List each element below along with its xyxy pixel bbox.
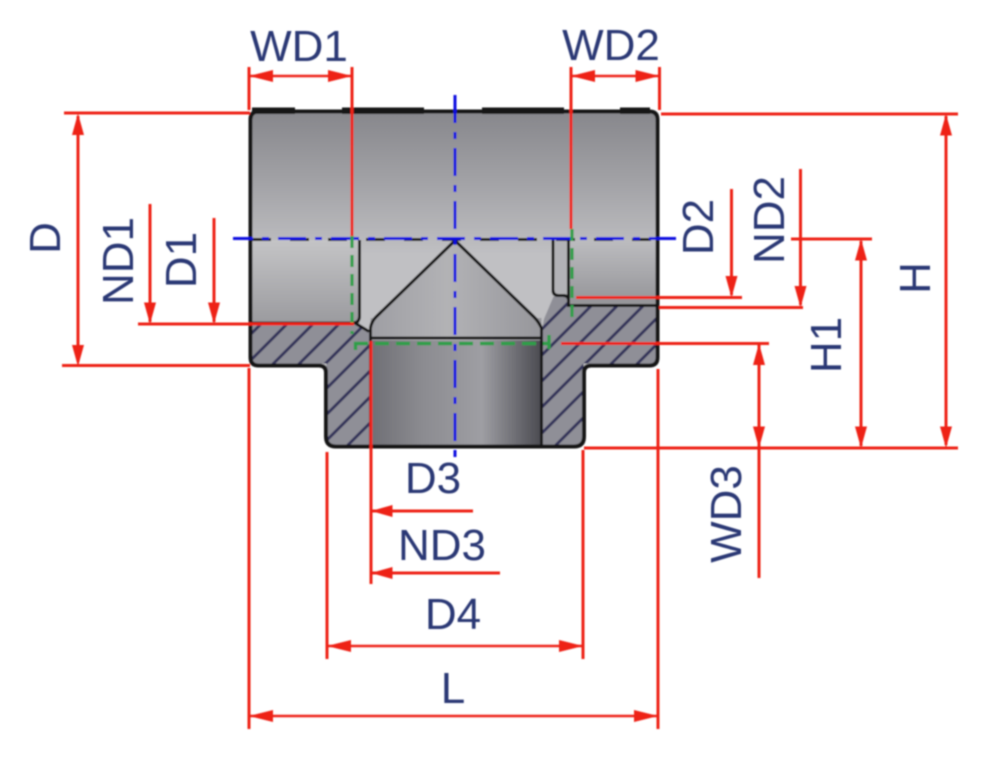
D3 dimension line <box>371 510 473 513</box>
WD2 right extension <box>658 67 661 110</box>
left socket step to cone <box>355 323 369 332</box>
WD2 left extension <box>570 67 573 229</box>
H dimension line <box>945 116 948 445</box>
vertical centerline (blue) <box>454 95 457 458</box>
svg-text:H: H <box>891 262 940 294</box>
ND2 extension <box>659 306 803 309</box>
svg-text:D: D <box>21 222 70 254</box>
top edge thick band segments <box>252 108 650 115</box>
WD2 arrows <box>571 70 595 82</box>
svg-text:H1: H1 <box>802 317 851 373</box>
hidden bore line (black dashed) on centerline <box>252 238 656 241</box>
right hatch section region <box>543 297 657 445</box>
WD3 arrows <box>753 344 765 366</box>
D top extension <box>64 112 250 115</box>
svg-text:WD2: WD2 <box>562 21 660 70</box>
green thread depth line right socket <box>570 229 573 318</box>
svg-text:ND2: ND2 <box>745 176 794 264</box>
ND1 arrow <box>144 303 156 325</box>
WD1 arrows <box>249 70 273 82</box>
D4 arrows <box>327 640 351 652</box>
WD1 left extension <box>248 67 251 110</box>
WD2 dimension line <box>571 75 660 77</box>
svg-text:WD1: WD1 <box>250 22 348 71</box>
D dimension line <box>77 116 80 362</box>
H arrows <box>940 114 952 136</box>
svg-text:ND1: ND1 <box>94 217 143 305</box>
svg-text:L: L <box>441 664 465 713</box>
bore upper light section <box>371 318 542 341</box>
L arrows <box>249 710 273 722</box>
L dimension line <box>249 715 658 717</box>
D4 right extension <box>582 450 585 659</box>
bore shoulder line (thread start) <box>371 337 542 340</box>
D1/ND1 extension <box>138 323 354 326</box>
WD1 right extension <box>351 67 354 236</box>
D2 dimension line <box>730 189 733 295</box>
D3 arrow <box>371 505 393 517</box>
left hatch section region <box>252 323 370 445</box>
WD3 dimension line <box>758 345 761 578</box>
D1 dimension line <box>213 218 216 322</box>
tee fitting body silhouette fill <box>251 112 658 447</box>
svg-text:ND3: ND3 <box>398 521 486 570</box>
tee fitting body silhouette outline <box>251 112 658 447</box>
horizontal centerline (blue) <box>233 237 676 240</box>
H1 arrows <box>855 239 867 261</box>
ND1 dimension line <box>149 204 152 322</box>
D2 extension <box>576 296 742 299</box>
svg-text:D1: D1 <box>157 232 206 288</box>
svg-text:D2: D2 <box>674 199 723 255</box>
left socket bore <box>251 240 360 324</box>
svg-text:WD3: WD3 <box>702 465 751 563</box>
D3/ND3 extension <box>370 341 373 584</box>
D2 arrow <box>726 276 738 298</box>
ND2 dimension line <box>799 169 802 305</box>
WD1 dimension line <box>249 75 352 77</box>
ND2 arrow <box>795 286 807 308</box>
H1 top extension <box>791 238 872 241</box>
D bottom extension <box>62 364 250 367</box>
bottom bore <box>371 341 542 445</box>
D arrows <box>72 114 84 136</box>
cone (drill point) <box>373 241 539 320</box>
H top extension <box>661 113 958 116</box>
green thread line bottom bore <box>354 342 549 345</box>
D4 left extension <box>326 452 329 659</box>
bottom shared extension (hub base) <box>584 447 958 450</box>
L right extension <box>657 369 660 729</box>
thread relief groove <box>555 240 569 295</box>
D4 dimension line <box>327 645 583 647</box>
D1 arrow <box>208 303 220 325</box>
green thread depth line left socket <box>350 236 353 334</box>
ND3 arrow <box>371 567 393 579</box>
right socket bore <box>569 240 658 306</box>
svg-text:D4: D4 <box>425 590 481 639</box>
WD3 top extension <box>561 342 769 345</box>
H1 dimension line <box>860 241 863 446</box>
red arrowheads <box>72 70 952 722</box>
ND3 dimension line <box>371 572 500 575</box>
svg-text:D3: D3 <box>405 454 461 503</box>
L left extension <box>248 368 251 729</box>
